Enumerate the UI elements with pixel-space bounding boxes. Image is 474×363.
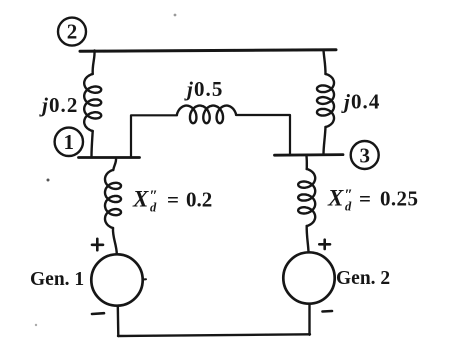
- bus node 3: [275, 153, 344, 156]
- wire: top bus to inductor j0.2: [93, 51, 95, 75]
- plus terminal gen 2: [319, 240, 330, 249]
- svg-text:Gen. 2: Gen. 2: [336, 268, 390, 289]
- node 1: [55, 128, 83, 156]
- node 3: [351, 141, 379, 169]
- wire: inductor j0.4 to bus 3: [324, 127, 326, 155]
- reactance X"d = 0.2 coil: [105, 170, 121, 228]
- wire: top bus to inductor j0.4: [324, 50, 326, 74]
- wire: coil to generator 1: [113, 228, 117, 254]
- bus node 2 (top bus): [80, 50, 336, 52]
- minus terminal gen 1: [92, 312, 104, 315]
- wire: j0.5 to node 3 bus drop: [236, 115, 290, 155]
- wire: bus 3 to generator 2 reactance: [305, 156, 308, 169]
- bus node 1: [79, 156, 140, 159]
- svg-text:j0.2: j0.2: [39, 93, 79, 117]
- generator G2 circle: [283, 252, 334, 303]
- svg-text:X″d=0.2: X″d=0.2: [132, 187, 212, 215]
- svg-text:j0.4: j0.4: [341, 90, 381, 114]
- svg-text:Gen. 1: Gen. 1: [30, 269, 84, 290]
- wire: inductor j0.2 to bus 1: [92, 131, 93, 157]
- svg-text:X″d=0.25: X″d=0.25: [327, 186, 418, 214]
- plus terminal gen 1: [92, 239, 103, 250]
- generator G1 circle: [91, 254, 142, 305]
- scan tick on generator 1 edge: [143, 278, 146, 280]
- wire: bus 1 riser to middle branch: [131, 115, 177, 157]
- node 2: [58, 18, 86, 46]
- inductor j0.4: [317, 74, 334, 127]
- speck: [35, 324, 37, 326]
- reactance X"d = 0.25 coil: [298, 169, 315, 226]
- svg-text:3: 3: [359, 143, 370, 167]
- inductor j0.5: [177, 106, 236, 124]
- svg-text:j0.5: j0.5: [184, 77, 224, 101]
- svg-text:1: 1: [64, 130, 75, 154]
- speck: [47, 179, 50, 182]
- bottom wire: [118, 334, 310, 336]
- wire: coil to generator 2: [307, 226, 309, 252]
- wire: bus 1 to generator 1 reactance: [113, 158, 116, 170]
- inductor j0.2: [84, 74, 101, 131]
- minus terminal gen 2: [323, 310, 333, 313]
- svg-text:2: 2: [67, 20, 78, 44]
- wire: bottom bus to generator 2: [308, 304, 310, 335]
- wire: generator 1 to bottom bus: [117, 306, 120, 336]
- speck: [174, 14, 177, 17]
